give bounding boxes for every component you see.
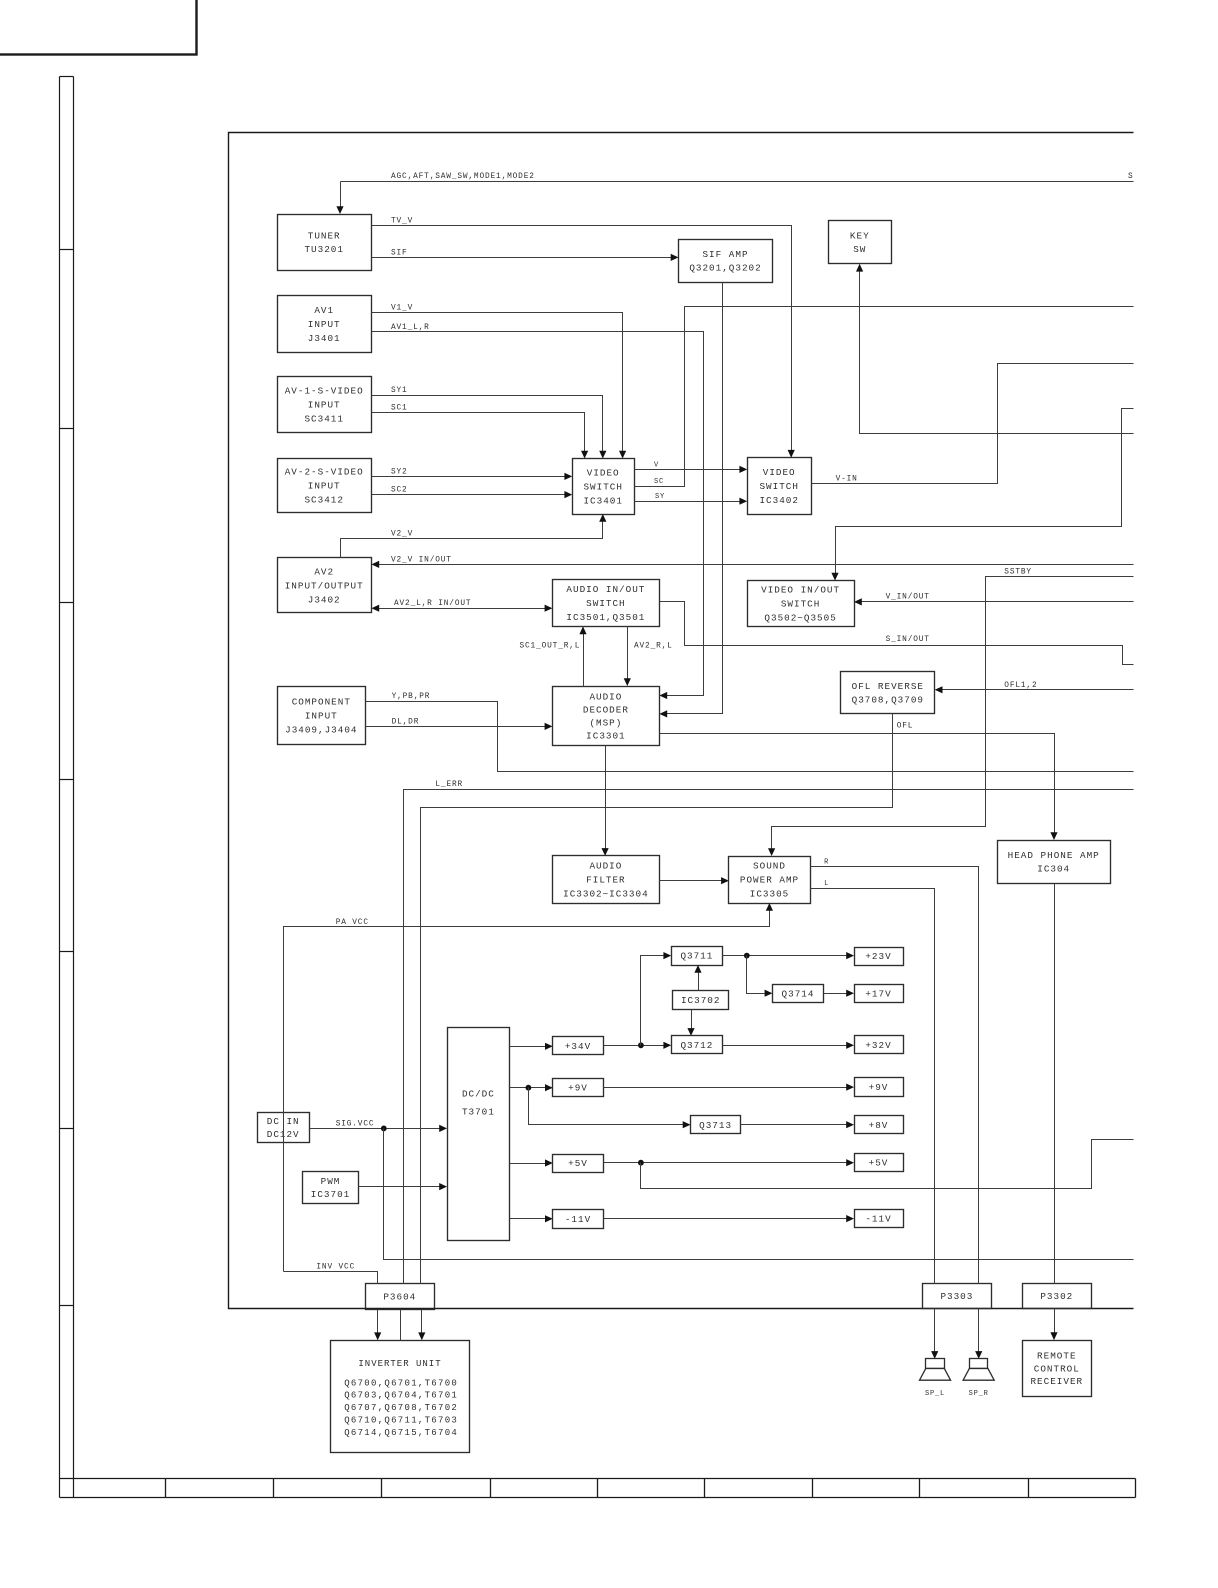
svg-text:INPUT: INPUT — [305, 711, 338, 722]
svg-text:SP_R: SP_R — [969, 1390, 989, 1398]
svg-text:V2_V IN/OUT: V2_V IN/OUT — [391, 556, 452, 564]
svg-text:Q6703,Q6704,T6701: Q6703,Q6704,T6701 — [344, 1391, 458, 1401]
svg-text:S_IN/OUT: S_IN/OUT — [886, 636, 930, 644]
svg-text:SY: SY — [655, 493, 665, 501]
svg-text:SC3412: SC3412 — [304, 495, 343, 506]
svg-text:Q3714: Q3714 — [782, 989, 815, 1000]
svg-text:HEAD PHONE AMP: HEAD PHONE AMP — [1008, 850, 1100, 861]
svg-text:SIG.VCC: SIG.VCC — [336, 1120, 375, 1128]
svg-text:VIDEO: VIDEO — [587, 467, 620, 478]
svg-text:DC/DC: DC/DC — [462, 1089, 495, 1100]
svg-text:IC3701: IC3701 — [311, 1189, 350, 1200]
svg-text:AV-1-S-VIDEO: AV-1-S-VIDEO — [285, 385, 364, 396]
svg-text:CONTROL: CONTROL — [1034, 1363, 1080, 1374]
svg-text:KEY: KEY — [850, 230, 870, 241]
svg-text:TUNER: TUNER — [308, 230, 341, 241]
svg-text:SIF: SIF — [391, 249, 408, 257]
svg-text:AUDIO: AUDIO — [589, 691, 622, 702]
svg-text:INPUT: INPUT — [308, 399, 341, 410]
svg-text:Q6710,Q6711,T6703: Q6710,Q6711,T6703 — [344, 1416, 458, 1426]
svg-text:INPUT: INPUT — [308, 319, 341, 330]
svg-text:L: L — [824, 880, 829, 888]
svg-text:IC3401: IC3401 — [583, 495, 622, 506]
svg-text:(MSP): (MSP) — [589, 717, 622, 728]
svg-text:+34V: +34V — [565, 1041, 591, 1052]
svg-text:SIF AMP: SIF AMP — [702, 249, 748, 260]
svg-text:V2_V: V2_V — [391, 530, 413, 538]
svg-text:V1_V: V1_V — [391, 304, 413, 312]
svg-text:SP_L: SP_L — [925, 1390, 945, 1398]
svg-text:P3303: P3303 — [940, 1291, 973, 1302]
svg-text:VIDEO IN/OUT: VIDEO IN/OUT — [761, 585, 840, 596]
svg-text:+9V: +9V — [568, 1083, 588, 1094]
svg-text:PWM: PWM — [321, 1176, 341, 1187]
svg-text:Q6714,Q6715,T6704: Q6714,Q6715,T6704 — [344, 1428, 458, 1438]
svg-text:S: S — [1128, 173, 1134, 181]
svg-text:Q3708,Q3709: Q3708,Q3709 — [852, 694, 924, 705]
svg-text:SSTBY: SSTBY — [1004, 569, 1032, 577]
svg-text:SC2: SC2 — [391, 487, 408, 495]
svg-text:+9V: +9V — [869, 1082, 889, 1093]
svg-text:INVERTER UNIT: INVERTER UNIT — [358, 1359, 441, 1369]
svg-text:SWITCH: SWITCH — [759, 481, 798, 492]
svg-text:INPUT/OUTPUT: INPUT/OUTPUT — [285, 580, 364, 591]
svg-text:RECEIVER: RECEIVER — [1030, 1376, 1083, 1387]
svg-text:SWITCH: SWITCH — [781, 599, 820, 610]
svg-text:SC3411: SC3411 — [304, 413, 343, 424]
svg-text:+5V: +5V — [568, 1158, 588, 1169]
svg-text:Q3711: Q3711 — [680, 951, 713, 962]
svg-text:VIDEO: VIDEO — [763, 467, 796, 478]
svg-text:Q3502~Q3505: Q3502~Q3505 — [764, 613, 836, 624]
svg-text:Q6700,Q6701,T6700: Q6700,Q6701,T6700 — [344, 1378, 458, 1388]
svg-text:V_IN/OUT: V_IN/OUT — [886, 593, 930, 601]
svg-text:Q6707,Q6708,T6702: Q6707,Q6708,T6702 — [344, 1403, 458, 1413]
svg-text:TV_V: TV_V — [391, 218, 413, 226]
svg-text:SY2: SY2 — [391, 468, 408, 476]
svg-text:P3302: P3302 — [1040, 1291, 1073, 1302]
svg-text:IC3305: IC3305 — [750, 889, 789, 900]
svg-text:J3401: J3401 — [308, 333, 341, 344]
svg-text:-11V: -11V — [865, 1214, 891, 1225]
svg-text:REMOTE: REMOTE — [1037, 1351, 1076, 1362]
svg-text:Q3712: Q3712 — [680, 1040, 713, 1051]
svg-text:AV-2-S-VIDEO: AV-2-S-VIDEO — [285, 467, 364, 478]
svg-text:FILTER: FILTER — [586, 875, 625, 886]
svg-text:J3402: J3402 — [308, 594, 341, 605]
svg-text:V: V — [654, 461, 659, 469]
svg-text:AGC,AFT,SAW_SW,MODE1,MODE2: AGC,AFT,SAW_SW,MODE1,MODE2 — [391, 173, 535, 181]
svg-text:+17V: +17V — [865, 989, 891, 1000]
svg-text:INPUT: INPUT — [308, 481, 341, 492]
svg-text:OFL REVERSE: OFL REVERSE — [852, 681, 924, 692]
svg-text:SC1: SC1 — [391, 404, 408, 412]
svg-text:COMPONENT: COMPONENT — [292, 697, 351, 708]
svg-text:Q3713: Q3713 — [699, 1120, 732, 1131]
svg-text:SOUND: SOUND — [753, 861, 786, 872]
svg-text:+8V: +8V — [869, 1120, 889, 1131]
svg-text:AV2_L,R IN/OUT: AV2_L,R IN/OUT — [394, 600, 471, 608]
svg-text:SC1_OUT_R,L: SC1_OUT_R,L — [520, 643, 581, 651]
svg-text:POWER AMP: POWER AMP — [740, 875, 799, 886]
svg-text:AUDIO IN/OUT: AUDIO IN/OUT — [566, 584, 645, 595]
svg-text:IC3402: IC3402 — [759, 495, 798, 506]
svg-text:IC3702: IC3702 — [681, 995, 720, 1006]
svg-text:DL,DR: DL,DR — [392, 718, 420, 726]
svg-text:IC304: IC304 — [1037, 863, 1070, 874]
svg-text:+23V: +23V — [865, 951, 891, 962]
svg-text:P3604: P3604 — [383, 1292, 416, 1303]
svg-text:-11V: -11V — [565, 1214, 591, 1225]
svg-text:SY1: SY1 — [391, 387, 408, 395]
svg-text:R: R — [824, 859, 829, 867]
svg-text:+5V: +5V — [869, 1157, 889, 1168]
svg-text:Y,PB,PR: Y,PB,PR — [392, 693, 431, 701]
svg-text:DECODER: DECODER — [583, 704, 629, 715]
svg-text:+32V: +32V — [865, 1040, 891, 1051]
svg-text:AV1_L,R: AV1_L,R — [391, 324, 430, 332]
svg-text:T3701: T3701 — [462, 1107, 495, 1118]
svg-text:SWITCH: SWITCH — [586, 598, 625, 609]
svg-text:AV2: AV2 — [314, 566, 334, 577]
svg-text:OFL: OFL — [897, 723, 914, 731]
svg-text:OFL1,2: OFL1,2 — [1004, 682, 1037, 690]
svg-text:V-IN: V-IN — [836, 475, 858, 483]
svg-text:TU3201: TU3201 — [304, 244, 343, 255]
svg-text:SW: SW — [853, 244, 866, 255]
svg-text:IC3501,Q3501: IC3501,Q3501 — [566, 612, 645, 623]
svg-text:SWITCH: SWITCH — [583, 481, 622, 492]
svg-text:IC3301: IC3301 — [586, 730, 625, 741]
svg-text:L_ERR: L_ERR — [435, 781, 463, 789]
svg-text:INV VCC: INV VCC — [316, 1264, 355, 1272]
svg-text:SC: SC — [654, 478, 664, 486]
svg-text:AUDIO: AUDIO — [589, 861, 622, 872]
svg-text:IC3302~IC3304: IC3302~IC3304 — [563, 889, 649, 900]
svg-text:AV1: AV1 — [314, 305, 334, 316]
svg-text:PA VCC: PA VCC — [336, 919, 369, 927]
svg-text:J3409,J3404: J3409,J3404 — [285, 725, 357, 736]
svg-text:Q3201,Q3202: Q3201,Q3202 — [689, 263, 761, 274]
svg-text:AV2_R,L: AV2_R,L — [634, 643, 673, 651]
